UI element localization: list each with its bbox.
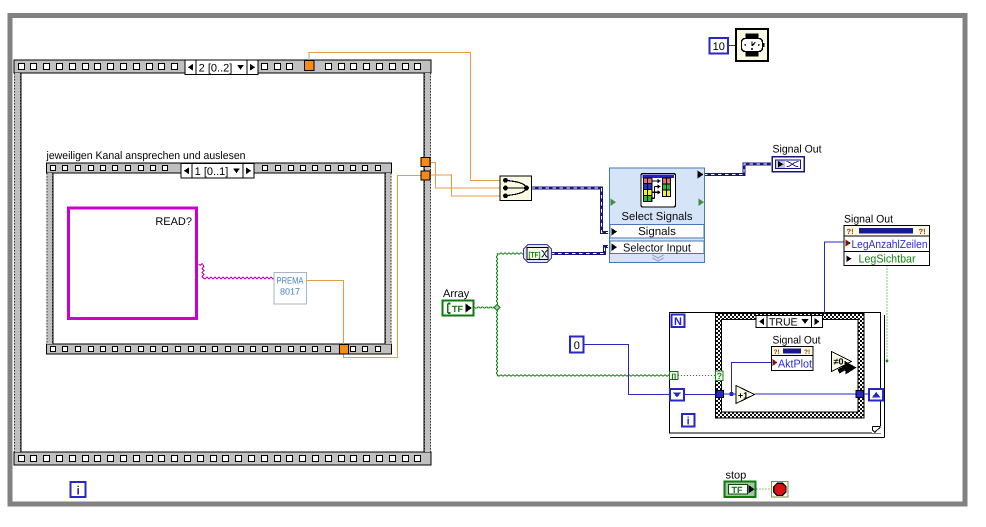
svg-text:10: 10 <box>713 41 725 53</box>
svg-text:[TF]: [TF] <box>529 251 541 260</box>
svg-text:Signals: Signals <box>638 226 676 238</box>
svg-text:Signal Out: Signal Out <box>844 214 893 226</box>
svg-text:[]: [] <box>672 373 676 380</box>
svg-text:?!: ?! <box>847 227 854 236</box>
svg-text:N: N <box>674 316 682 328</box>
svg-text:1 [0..1]: 1 [0..1] <box>195 166 229 178</box>
svg-text:8017: 8017 <box>280 287 300 297</box>
svg-text:?: ? <box>717 371 723 381</box>
svg-text:?!: ?! <box>804 349 810 356</box>
svg-text:i: i <box>687 415 690 427</box>
svg-text:TF: TF <box>452 304 463 314</box>
svg-text:LegSichtbar: LegSichtbar <box>859 254 916 266</box>
svg-text:stop: stop <box>726 470 747 482</box>
svg-text:PREMA: PREMA <box>277 276 304 286</box>
svg-text:Select Signals: Select Signals <box>622 211 693 223</box>
svg-text:0: 0 <box>574 340 580 352</box>
svg-text:READ?: READ? <box>155 216 192 228</box>
svg-text:Selector Input: Selector Input <box>623 243 692 255</box>
svg-text:TF: TF <box>732 485 743 495</box>
svg-text:?!: ?! <box>919 227 926 236</box>
svg-text:2 [0..2]: 2 [0..2] <box>199 62 233 74</box>
svg-text:jeweiligen Kanal ansprechen un: jeweiligen Kanal ansprechen und auslesen <box>46 150 246 162</box>
svg-text:Signal Out: Signal Out <box>773 144 822 156</box>
svg-text:Signal Out: Signal Out <box>773 335 821 347</box>
svg-text:≠0: ≠0 <box>834 357 844 367</box>
svg-text:TRUE: TRUE <box>769 317 798 329</box>
svg-text:?!: ?! <box>774 349 780 356</box>
svg-text:i: i <box>77 484 80 498</box>
svg-text:Array: Array <box>443 288 470 300</box>
svg-text:+1: +1 <box>738 390 748 400</box>
svg-text:AktPlot: AktPlot <box>778 359 813 371</box>
svg-text:LegAnzahlZeilen: LegAnzahlZeilen <box>852 239 928 251</box>
